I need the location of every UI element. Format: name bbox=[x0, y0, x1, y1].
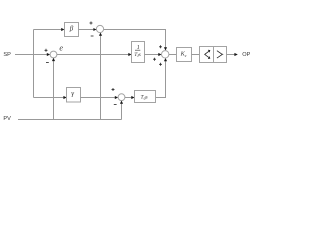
node OP label bbox=[242, 52, 250, 58]
wire branch to gamma block bbox=[34, 96, 67, 99]
sign plus bottom at S3 bbox=[159, 63, 162, 66]
block gamma bbox=[67, 88, 81, 103]
block beta bbox=[65, 23, 79, 37]
svg-text:PV: PV bbox=[3, 116, 11, 122]
summing junction S2 (beta*SP - PV) bbox=[96, 25, 103, 32]
wire e to integral block bbox=[57, 53, 132, 56]
wire PV branch up to S4 bbox=[120, 101, 123, 120]
svg-text:e: e bbox=[59, 44, 63, 53]
sign minus at S2 bbox=[91, 35, 94, 37]
wire PV branch up to S1 bbox=[52, 58, 55, 120]
wire derivative path up to S3 bottom bbox=[156, 58, 168, 97]
wire branch to beta block bbox=[34, 28, 65, 31]
sign plus at S4 bbox=[112, 88, 115, 91]
node e label bbox=[59, 44, 63, 53]
svg-text:OP: OP bbox=[242, 52, 250, 58]
wire SP branch vertical (to beta above, gamma below) bbox=[33, 30, 35, 98]
wire beta to summer S2 bbox=[79, 28, 97, 31]
wire S3 to Kc bbox=[169, 54, 177, 56]
summing junction S4 (gamma*SP - PV) bbox=[118, 94, 125, 101]
block derivative Td s bbox=[135, 91, 156, 103]
wire gamma to summer S4 bbox=[81, 96, 119, 99]
node PV label bbox=[3, 116, 11, 122]
wire Kc to limiter bbox=[192, 54, 200, 56]
svg-text:γ: γ bbox=[71, 90, 74, 98]
block Kc bbox=[177, 48, 192, 62]
wire PV input line bbox=[18, 119, 122, 121]
sign minus at S4 bbox=[114, 104, 117, 106]
wire S4 to Td s block bbox=[125, 96, 135, 99]
svg-text:SP: SP bbox=[3, 52, 11, 58]
sign plus top at S3 bbox=[159, 45, 162, 48]
sign plus at S1 bbox=[45, 49, 48, 52]
wire output to OP bbox=[227, 53, 238, 56]
node SP label bbox=[3, 52, 11, 58]
summing junction S1 (SP - PV = e) bbox=[50, 51, 57, 58]
wire PV branch up to S2 bbox=[99, 33, 102, 120]
block output limiter bbox=[214, 47, 227, 63]
wire S2 to corner then down to S3 top bbox=[104, 30, 167, 51]
summing junction S3 (P+I+D) bbox=[162, 51, 169, 58]
block integral 1/(TI s) bbox=[132, 42, 145, 63]
sign plus left at S3 bbox=[153, 58, 156, 61]
wire SP input line bbox=[15, 53, 50, 56]
sign plus at S2 bbox=[90, 22, 93, 25]
svg-text:β: β bbox=[69, 25, 74, 33]
block rate limiter bbox=[200, 47, 214, 63]
sign minus at S1 bbox=[46, 62, 49, 64]
wire integral to summer S3 bbox=[145, 53, 162, 56]
